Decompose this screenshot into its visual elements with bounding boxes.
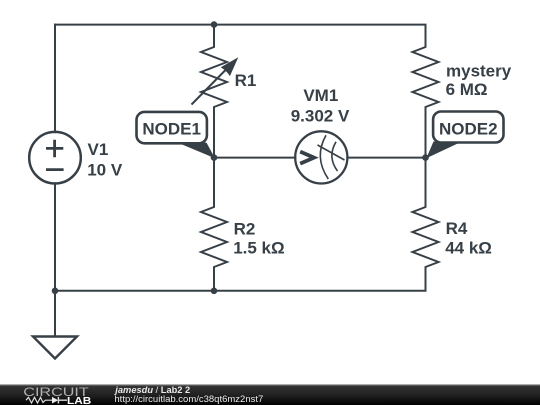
svg-text:R2: R2 (234, 220, 256, 239)
junction dot R2 bottom (211, 288, 218, 295)
voltmeter VM1 (295, 131, 347, 183)
svg-text:VM1: VM1 (303, 86, 338, 105)
wire left rail lower (54, 183, 56, 290)
junction dot ground (52, 288, 59, 295)
svg-text:6 MΩ: 6 MΩ (446, 80, 488, 99)
svg-text:9.302 V: 9.302 V (291, 107, 350, 126)
logo diode (52, 397, 58, 404)
node NODE2 flag (426, 142, 462, 159)
resistor R2 (201, 158, 227, 291)
R1 arrowhead (221, 57, 239, 76)
logo resistor zigzag (26, 397, 52, 403)
svg-text:NODE1: NODE1 (142, 119, 201, 138)
svg-text:http://circuitlab.com/c38qt6mz: http://circuitlab.com/c38qt6mz2nst7 (114, 394, 263, 405)
junction dot NODE1 (211, 154, 218, 161)
svg-text:1.5 kΩ: 1.5 kΩ (233, 239, 284, 258)
junction dot NODE2 (422, 154, 429, 161)
svg-text:10 V: 10 V (87, 161, 123, 180)
resistor mystery (413, 25, 439, 158)
node NODE1 flag (176, 142, 216, 158)
wire middle right (voltmeter to NODE2) (347, 157, 425, 159)
svg-text:V1: V1 (88, 140, 109, 159)
footer bar top highlight (0, 384, 540, 385)
resistor R1 (variable) (192, 25, 228, 158)
label R2 value (233, 220, 284, 258)
wire middle left (NODE1 to voltmeter) (214, 157, 295, 159)
ground (33, 337, 77, 359)
label mystery value (446, 61, 512, 99)
svg-text:R1: R1 (235, 71, 257, 90)
label V1 value (87, 140, 123, 180)
svg-text:mystery: mystery (446, 61, 512, 80)
wire ground stem (54, 291, 56, 337)
label VM1 value (291, 86, 350, 126)
svg-text:NODE2: NODE2 (439, 120, 498, 139)
wire bottom horizontal (55, 290, 426, 292)
voltage source V1 (29, 132, 81, 184)
svg-text:LAB: LAB (67, 396, 91, 405)
label R4 value (445, 219, 492, 258)
wire left rail upper (54, 25, 56, 133)
resistor R4 (413, 158, 439, 291)
svg-text:R4: R4 (446, 219, 468, 238)
wire top horizontal (55, 24, 426, 26)
junction dot top (211, 21, 218, 28)
svg-text:44 kΩ: 44 kΩ (445, 239, 492, 258)
